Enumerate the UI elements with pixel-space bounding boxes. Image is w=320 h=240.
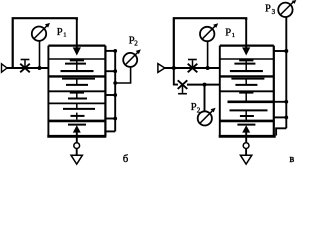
wire frame loop left [13, 18, 77, 68]
pressure gauge P2 left [123, 53, 137, 67]
wire stub 1 left [105, 50, 115, 52]
pressure gauge P3 right [278, 3, 292, 17]
pressure gauge P1 right [200, 27, 214, 41]
membrane stack left: outer box [48, 44, 105, 46]
wire stub 4 left [105, 118, 115, 120]
support plate b left [76, 79, 78, 85]
inlet down arrow into stack right [245, 18, 247, 52]
pressure gauge P2 right stem [204, 85, 206, 112]
membrane line 2 right [220, 75, 274, 77]
inlet arrow (feed) left [2, 64, 8, 72]
support plate e right [240, 115, 254, 117]
wire stub 2 right [274, 101, 287, 103]
junction gauge P1 left [38, 66, 42, 70]
valve V2 right (throttle) [178, 80, 188, 93]
wire bus bottom left [104, 130, 115, 132]
outlet bar left [68, 124, 86, 126]
support plate a right [234, 63, 255, 65]
support plate c left [76, 93, 78, 99]
svg-text:1: 1 [63, 32, 66, 39]
outlet bar right [237, 124, 255, 126]
wire bus bottom jog right [276, 128, 286, 135]
wire feed line left [7, 67, 49, 69]
svg-text:P: P [57, 27, 63, 38]
svg-text:2: 2 [197, 106, 201, 114]
wire stub 3 right [274, 116, 287, 118]
support plate e left [76, 113, 78, 120]
stack right: membrane line 1 [220, 58, 274, 60]
svg-text:2: 2 [134, 40, 138, 48]
pressure gauge P2 right [198, 111, 212, 125]
junction bus right [284, 49, 288, 53]
support plate a left [65, 63, 86, 65]
stack left: membrane line 1 [48, 58, 105, 60]
valve V1 right (throttle) [188, 60, 198, 73]
membrane line 2 left [48, 75, 105, 77]
wire outlet stem left [76, 149, 78, 155]
svg-text:в: в [290, 154, 295, 165]
svg-text:1: 1 [232, 32, 235, 39]
pressure gauge P2 left elbow [115, 66, 130, 83]
membrane line 4 left [48, 102, 105, 104]
membrane stack right: outer box [220, 44, 274, 46]
drain triangle right [240, 155, 251, 164]
membrane line 3 left [48, 90, 105, 92]
pressure gauge P1 left [32, 27, 46, 41]
svg-text:P: P [225, 27, 231, 38]
svg-text:3: 3 [272, 8, 276, 16]
support plate d left [76, 103, 78, 109]
junction frame right [172, 66, 176, 70]
junction gauge P1 right [206, 66, 210, 70]
inlet arrow (feed) right [158, 64, 165, 73]
inlet down arrow into stack left [76, 18, 78, 52]
wire feed line 2 right [187, 84, 220, 86]
wire branch to valve V2 right [174, 68, 178, 85]
outlet node circle left [74, 143, 80, 149]
support plate c right [245, 93, 247, 102]
svg-text:б: б [123, 154, 128, 165]
wire stub 3 left [105, 94, 115, 96]
membrane line 3 right [220, 90, 274, 92]
support plate b right [245, 79, 247, 85]
outlet up arrow left [73, 125, 81, 132]
support plate d right [230, 109, 268, 111]
outlet up arrow right [242, 125, 250, 132]
wire stub 1 right [274, 50, 287, 52]
junction bus left [113, 49, 117, 53]
wire feed line right [165, 67, 220, 69]
junction gauge P2 right [203, 83, 207, 87]
membrane line 5 right [220, 120, 274, 123]
pressure gauge P1 left stem [39, 41, 41, 68]
membrane line 4 right [228, 100, 274, 103]
valve V1 left (throttle) [20, 60, 30, 73]
svg-text:P: P [265, 4, 271, 15]
pressure gauge P1 right stem [207, 41, 209, 68]
wire permeate bus left [114, 51, 116, 131]
drain triangle left [71, 155, 82, 164]
wire stub 2 left [105, 70, 115, 72]
wire frame loop right [174, 18, 246, 68]
wire outlet stem right [245, 149, 247, 155]
outlet node circle right [243, 143, 249, 149]
wire permeate bus right [285, 17, 287, 129]
membrane line 5 left [48, 120, 105, 123]
